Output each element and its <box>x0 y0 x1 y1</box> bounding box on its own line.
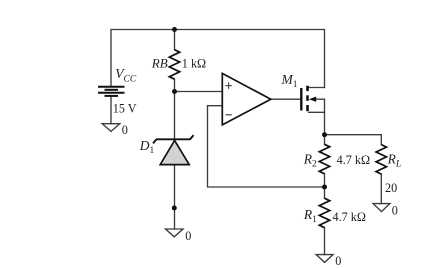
wire node to R2 <box>324 135 326 145</box>
op-amp plus sign <box>225 82 231 88</box>
svg-text:RB: RB <box>151 55 168 70</box>
svg-text:0: 0 <box>122 123 128 137</box>
battery VCC <box>98 87 125 96</box>
wire drain stub <box>309 87 325 89</box>
svg-text:4.7 kΩ: 4.7 kΩ <box>337 153 370 167</box>
wire op-amp output to gate <box>271 98 300 100</box>
channel dashes <box>306 86 309 112</box>
svg-text:20: 20 <box>385 181 397 195</box>
resistor RL <box>376 145 386 175</box>
ground (D1) <box>166 229 184 237</box>
wire body lead <box>316 98 325 100</box>
wire node to op-amp plus input <box>175 91 223 93</box>
wire node to R1 <box>324 187 326 198</box>
svg-text:4.7 kΩ: 4.7 kΩ <box>333 210 366 224</box>
resistor R2 <box>319 144 329 174</box>
wire R1 to ground <box>324 228 326 255</box>
node dot (source/R2/RL) <box>322 132 327 137</box>
ground (RL) <box>373 204 390 212</box>
wire RB top lead <box>174 30 176 50</box>
node dot (rail/RB) <box>172 27 177 32</box>
wire battery to ground <box>110 96 112 124</box>
wire RL to ground <box>380 174 382 204</box>
ground (R1) <box>316 255 333 263</box>
svg-text:15 V: 15 V <box>113 101 137 115</box>
svg-text:0: 0 <box>392 203 398 217</box>
resistor R1 <box>319 198 329 228</box>
op-amp U1 <box>222 73 270 125</box>
node dot (zener to ground) <box>172 206 177 211</box>
ground (VCC) <box>102 124 120 132</box>
wire node down to zener cathode <box>174 92 176 139</box>
transistor M1 <box>301 86 316 112</box>
wire node to RL branch <box>325 135 382 145</box>
wire RB bottom lead to node <box>174 79 176 91</box>
resistor RB <box>169 50 179 79</box>
body arrow <box>309 97 316 102</box>
node dot (R2/R1/feedback) <box>322 185 327 190</box>
wire source down to node <box>324 99 326 135</box>
op-amp minus sign <box>226 114 232 116</box>
wire source stub <box>309 111 325 113</box>
gate bar <box>300 88 302 111</box>
node dot (RB/opamp/zener) <box>172 89 177 94</box>
zener diode D1 <box>153 135 194 165</box>
wire zener anode to ground <box>174 165 176 229</box>
wire feedback minus input <box>208 106 325 187</box>
svg-text:1 kΩ: 1 kΩ <box>182 57 206 71</box>
wire top rail <box>111 30 325 88</box>
svg-text:0: 0 <box>185 229 191 243</box>
wire R2 to node <box>324 174 326 187</box>
svg-text:0: 0 <box>335 254 341 268</box>
